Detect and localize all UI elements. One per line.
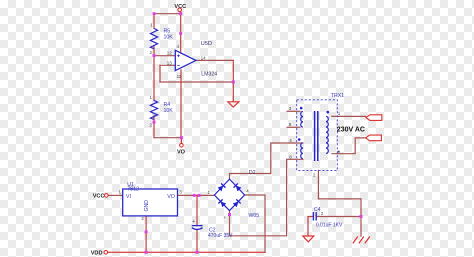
svg-text:10K: 10K — [164, 35, 174, 41]
wire regulator GND pin — [145, 216, 147, 252]
polarity dot upper secondary — [300, 107, 303, 110]
wire regulator output to bridge — [178, 194, 215, 196]
wire bridge top to transformer pin — [230, 143, 304, 179]
svg-text:TRX1: TRX1 — [331, 93, 344, 99]
core — [315, 111, 318, 161]
svg-text:230V AC: 230V AC — [337, 126, 365, 133]
svg-text:VI: VI — [126, 194, 131, 200]
wire R5 to junction to R4 — [153, 45, 155, 100]
secondary winding lower — [301, 143, 303, 159]
wire bridge right vertex — [245, 195, 265, 252]
wire R4 bottom horizontal — [154, 137, 181, 139]
terminal VCC regulator — [105, 194, 109, 198]
wire VCC drop to op-amp pin 4 — [180, 11, 182, 53]
wire C4 right lead — [316, 216, 361, 218]
svg-text:10K: 10K — [164, 108, 174, 114]
capacitor C2 — [192, 219, 233, 239]
wire op-amp output — [196, 59, 233, 61]
polarity dot primary — [327, 111, 330, 114]
ground (C4 left) — [303, 236, 314, 242]
transformer pin stub 3 — [287, 110, 300, 112]
svg-text:U5D: U5D — [201, 41, 212, 47]
wire op-amp pin 11 down — [180, 70, 182, 138]
ground (op-amp output) — [228, 102, 239, 107]
svg-text:+: + — [192, 219, 195, 225]
pin numbers transformer — [289, 106, 341, 177]
svg-text:VDD: VDD — [91, 250, 103, 256]
terminal VO — [180, 144, 184, 148]
wire regulator input — [108, 194, 123, 196]
svg-text:W05: W05 — [249, 213, 260, 219]
pin numbers bridge — [208, 189, 250, 220]
diode top-left — [217, 183, 225, 191]
resistor R5 — [150, 28, 157, 48]
wire op-amp pin 12 — [154, 55, 175, 57]
wire C2 bottom lead — [196, 230, 198, 252]
pin numbers U1 — [119, 190, 183, 221]
wire op-amp pin 13 — [160, 64, 175, 66]
primary winding — [326, 116, 328, 153]
transformer TRX1 — [297, 93, 344, 170]
connector flag lower — [366, 135, 382, 141]
pin numbers R5 — [150, 22, 154, 127]
svg-text:C4: C4 — [314, 207, 321, 213]
resistor R4 — [150, 100, 157, 119]
pin numbers op-amp — [167, 44, 206, 79]
diode bottom-right — [233, 199, 241, 207]
wire bridge bottom to transformer pin — [230, 159, 304, 236]
diode top-right — [234, 183, 242, 191]
svg-text:14: 14 — [201, 56, 207, 61]
wire primary pin 1 to connector — [332, 115, 366, 117]
wire feedback vertical — [159, 65, 161, 82]
svg-text:VO: VO — [177, 149, 186, 155]
svg-text:VO: VO — [167, 194, 175, 200]
wire bottom VDD rail — [108, 251, 265, 253]
wire transformer bottom pin 2 to earth — [318, 170, 361, 236]
svg-text:0.01uF 1KV: 0.01uF 1KV — [316, 223, 343, 229]
terminal VCC top — [178, 8, 182, 12]
wire C4 left lead — [308, 217, 313, 237]
wire VCC top rail — [154, 13, 181, 15]
bridge rectifier D2 W05 — [214, 170, 259, 219]
earth ground (right) — [353, 237, 370, 244]
svg-text:LM324: LM324 — [201, 72, 217, 78]
svg-text:+: + — [223, 215, 226, 220]
wire feedback horizontal — [160, 81, 233, 83]
wire C2 top lead — [196, 195, 198, 225]
svg-text:VCC: VCC — [93, 194, 105, 200]
wire output down to ground — [232, 60, 234, 101]
transformer pin stub 8 — [287, 126, 300, 128]
wire primary pin 2 to connector — [332, 138, 366, 154]
voltage regulator U1 — [123, 182, 178, 216]
svg-text:12: 12 — [167, 51, 173, 56]
op-amp U5D — [175, 41, 217, 78]
svg-text:GND: GND — [144, 200, 150, 212]
polarity dot lower secondary — [298, 138, 301, 141]
capacitor C4 — [313, 207, 343, 229]
svg-text:470uF 35V: 470uF 35V — [208, 233, 233, 239]
svg-text:11: 11 — [177, 74, 182, 79]
svg-text:13: 13 — [167, 60, 173, 65]
connector flag upper — [366, 115, 382, 121]
secondary winding upper — [301, 111, 303, 127]
pin dot primary 2 — [338, 151, 340, 153]
svg-text:D2: D2 — [249, 170, 256, 176]
terminal VDD — [104, 251, 108, 255]
wire below R4 — [153, 116, 155, 138]
diode bottom-left — [218, 199, 226, 207]
wire to VO terminal — [180, 138, 182, 144]
svg-text:7812: 7812 — [127, 186, 139, 192]
wire left branch down to R5 — [153, 14, 155, 29]
